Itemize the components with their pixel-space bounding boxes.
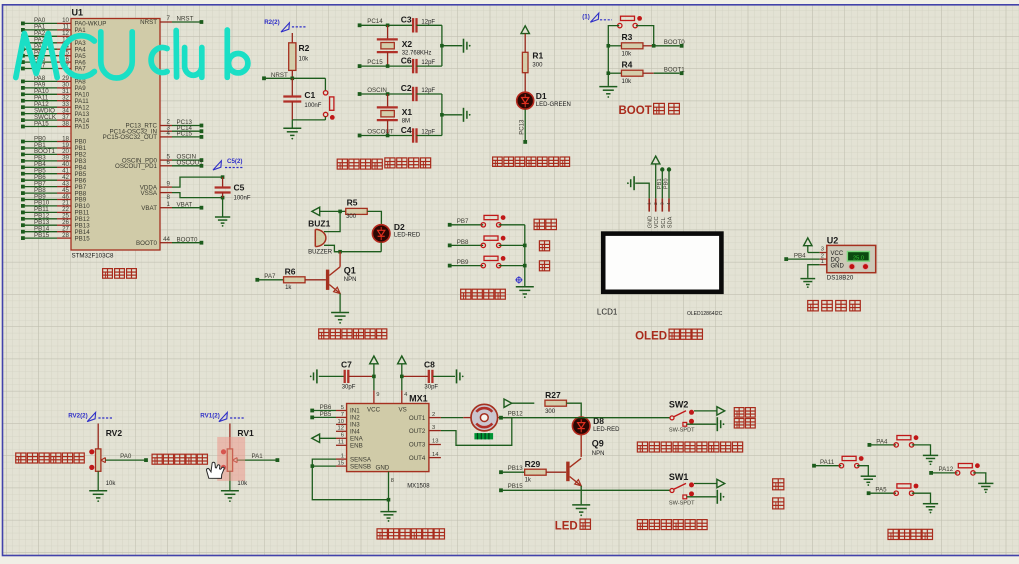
goto marker RV2(2) (68, 412, 112, 421)
push button PB9 (481, 256, 505, 268)
goto marker C5(2) (213, 158, 243, 170)
capacitor C5 (215, 177, 251, 201)
wire SW2 NO to power (694, 410, 717, 412)
svg-text:300: 300 (545, 409, 556, 415)
terminal PC13 bottom (523, 140, 527, 144)
wire SW2 NC to ground (687, 423, 717, 425)
capacitor C7 (319, 359, 374, 390)
label reset-circuit caption (337, 159, 382, 169)
goto marker RV1(2) (200, 412, 244, 421)
label temp-module caption (808, 301, 861, 311)
pin PA4 (14) of U1 (21, 43, 86, 53)
svg-text:PB12: PB12 (508, 410, 524, 417)
junction R3/R4 left (607, 44, 611, 48)
IC U1 STM32F103C8 body (71, 19, 160, 251)
power arrow buzzer (312, 207, 320, 215)
svg-text:SENSA: SENSA (350, 456, 372, 463)
net label PB1 vertical (657, 178, 663, 189)
svg-text:(1): (1) (582, 14, 590, 21)
svg-text:C3: C3 (401, 15, 412, 25)
terminal PB12 (499, 410, 523, 419)
svg-text:GND: GND (648, 216, 654, 228)
svg-text:MX1508: MX1508 (407, 484, 430, 490)
pin SENSA (1) of MX1 (336, 454, 372, 464)
svg-text:BUZZER: BUZZER (308, 249, 333, 255)
svg-text:IN4: IN4 (350, 429, 360, 436)
wire OSCIN to C2 (360, 93, 413, 95)
wire power to R1 (524, 34, 526, 53)
wire to reset ground (291, 120, 293, 128)
svg-text:12pF: 12pF (421, 88, 435, 94)
push button PB8 (481, 236, 505, 248)
pin IN4 (12) of MX1 (336, 426, 360, 436)
wire NRST net (264, 77, 325, 79)
transistor Q1 NPN (326, 252, 357, 294)
wire RV2 to ground (97, 471, 99, 490)
goto marker (1) (582, 13, 612, 22)
ground Q1 (331, 313, 349, 324)
wire OUT2 to motor (441, 418, 512, 446)
svg-text:VCC: VCC (367, 407, 381, 414)
boot push button (618, 16, 642, 28)
ground PA11 (861, 476, 876, 486)
svg-text:SENSB: SENSB (350, 463, 371, 470)
resistor R6 (284, 266, 306, 291)
svg-text:300: 300 (346, 214, 357, 220)
svg-text:30pF: 30pF (424, 384, 438, 390)
pin PB0 (18) of U1 (21, 135, 87, 145)
svg-text:100nF: 100nF (234, 196, 251, 202)
terminal PB7 and wire (448, 218, 483, 227)
ground MX1 (380, 512, 396, 522)
pin PA2 (12) of U1 (21, 30, 86, 40)
wire OSCOUT to C4 (360, 135, 413, 137)
wire button PA4 to ground (912, 445, 931, 455)
ground X2 (sideways) (464, 39, 471, 53)
ground PA5 (923, 504, 938, 514)
label crystal-circuit caption (385, 158, 431, 168)
svg-text:14: 14 (432, 452, 439, 458)
svg-text:R2(2): R2(2) (264, 19, 279, 26)
terminal PA7 (255, 273, 276, 282)
power arrow SW2 (717, 407, 725, 415)
svg-text:R5: R5 (347, 197, 358, 207)
wire PB5 to IN2 (312, 416, 336, 418)
ground C8 (sideways) (457, 369, 464, 383)
pin SWCLK (37) of U1 (21, 114, 90, 124)
transistor Q9 NPN (566, 439, 604, 486)
wire crystal X1 right bus (441, 94, 443, 136)
pin BOOT0 (44) of U1 with terminal BOOT0 (136, 236, 203, 247)
svg-text:R4: R4 (622, 59, 633, 69)
buzzer BUZ1 (308, 218, 333, 255)
terminal OSCOUT (358, 128, 394, 137)
svg-text:PB15: PB15 (75, 235, 91, 242)
svg-text:PB15: PB15 (508, 483, 524, 490)
pin PC13_RTC (2) of U1 with terminal PC13 (125, 119, 203, 130)
svg-text:U1: U1 (72, 8, 84, 18)
wire Q9 emitter to ground (580, 486, 582, 504)
svg-text:PC15: PC15 (367, 59, 383, 66)
pin PA9 (30) of U1 (21, 82, 86, 92)
svg-text:10k: 10k (622, 51, 633, 57)
svg-text:3: 3 (432, 425, 435, 431)
ground X1 (sideways) (464, 108, 471, 122)
svg-text:RV1: RV1 (237, 428, 254, 438)
capacitor C3 (401, 15, 442, 33)
svg-text:C8: C8 (424, 359, 435, 369)
ground C7 (sideways) (310, 369, 317, 383)
wire bottom bus (334, 251, 381, 253)
pin PB1 (19) of U1 (21, 142, 87, 152)
junction OSCOUT/X1 (386, 134, 390, 138)
svg-text:9: 9 (167, 180, 171, 187)
svg-text:GND: GND (376, 464, 390, 471)
label minus caption (539, 261, 549, 271)
terminal PB13 (499, 465, 523, 474)
ground RV2 (89, 491, 107, 502)
ground under C5 (215, 217, 230, 227)
pin IN1 (5) of MX1 (336, 405, 360, 415)
terminal PB6 (310, 404, 332, 413)
svg-text:OUT1: OUT1 (409, 415, 426, 422)
svg-text:OSCOUT: OSCOUT (367, 128, 394, 135)
pin PB14 (27) of U1 (21, 226, 90, 236)
wire D1 to PC13 terminal (524, 109, 526, 140)
wire VCC U2 (808, 252, 820, 254)
wire button left (608, 26, 619, 46)
svg-text:6: 6 (341, 433, 344, 439)
svg-text:BOOT0: BOOT0 (136, 240, 158, 247)
pin VDDA (9) of U1 (140, 180, 172, 191)
wire PA7 to R6 (257, 279, 283, 281)
svg-text:VBAT: VBAT (141, 205, 157, 212)
svg-text:LCD1: LCD1 (597, 308, 618, 317)
label alarm-circuit caption (319, 329, 387, 339)
ground BOOT circuit (599, 87, 617, 98)
push button PB7 (481, 215, 505, 227)
junction PC14/X2 (386, 24, 390, 28)
label LED-lamp caption (555, 519, 591, 532)
junction SENSA/SENSB (311, 464, 315, 468)
wire SDA PB0 (667, 167, 671, 198)
terminal PB15 (499, 483, 523, 492)
wire RV1 wiper to PA1 (237, 453, 277, 460)
svg-text:SW-SPDT: SW-SPDT (669, 500, 695, 506)
resistor R2 (289, 43, 310, 71)
pin PA7 (17) of U1 (21, 62, 86, 72)
terminal PA0 (144, 458, 148, 462)
svg-text:10k: 10k (299, 57, 310, 63)
label main-chip caption (103, 269, 137, 279)
svg-text:12pF: 12pF (421, 130, 435, 136)
svg-text:PA1: PA1 (252, 453, 264, 460)
svg-text:PB7: PB7 (457, 218, 469, 225)
svg-text:2: 2 (653, 202, 659, 205)
label plus caption (539, 241, 549, 251)
svg-text:OLED12864I2C: OLED12864I2C (687, 311, 723, 317)
svg-text:SW1: SW1 (669, 472, 689, 482)
crystal X1 (377, 94, 413, 136)
capacitor C2 (401, 83, 442, 101)
svg-text:SW2: SW2 (669, 399, 689, 409)
terminal PA12 (929, 466, 954, 475)
svg-text:PB0: PB0 (664, 178, 670, 189)
svg-text:RV1(2): RV1(2) (200, 413, 220, 420)
diode D8 LED-RED (572, 416, 620, 435)
terminal PB5 (310, 411, 332, 420)
svg-text:C5(2): C5(2) (227, 158, 242, 165)
svg-text:R27: R27 (545, 390, 561, 400)
label dark caption (773, 479, 784, 490)
wire PA12 to button (931, 472, 957, 474)
switch SW1 SW-SPDT (669, 472, 695, 506)
svg-text:8M: 8M (402, 119, 410, 125)
wire button PB8 right (499, 244, 525, 246)
wire PB12 to switch (501, 417, 670, 419)
power arrow VS MX1 (398, 356, 406, 390)
svg-text:PB15: PB15 (34, 232, 50, 239)
label gas-adjust caption (16, 453, 85, 463)
ground Q9 (572, 505, 590, 516)
wire R4 to BOOT1 (654, 67, 686, 74)
pin PC14-OSC32_IN (3) of U1 with terminal PC14 (110, 124, 204, 135)
svg-text:LED-RED: LED-RED (593, 427, 620, 433)
svg-text:OUT3: OUT3 (409, 442, 426, 449)
svg-text:15: 15 (338, 461, 344, 467)
wire button bus down (524, 225, 526, 286)
wire GND down (388, 500, 390, 511)
ground reset circuit (283, 128, 301, 139)
svg-text:R29: R29 (525, 459, 541, 469)
svg-text:BUZ1: BUZ1 (308, 218, 330, 228)
svg-text:13: 13 (432, 439, 438, 445)
svg-text:Q1: Q1 (344, 266, 356, 276)
svg-text:R3: R3 (622, 32, 633, 42)
svg-text:25.0: 25.0 (853, 255, 864, 261)
pin PA10 (31) of U1 (21, 88, 90, 98)
potentiometer RV1 (221, 428, 254, 487)
wire ENA (320, 437, 336, 439)
selection highlight RV1 (217, 437, 245, 481)
wire marker to RV2 (97, 424, 99, 449)
svg-text:VCC: VCC (654, 216, 660, 228)
svg-text:300: 300 (532, 62, 543, 68)
ground PA4 (923, 455, 938, 465)
wire button to C1 bottom (292, 119, 325, 121)
svg-text:7: 7 (167, 15, 171, 22)
label dc-motor caption (377, 529, 444, 539)
pin SWDIO (34) of U1 (21, 107, 90, 117)
switch SW2 SW-SPDT (669, 399, 695, 433)
push button PA4 (894, 435, 918, 447)
wire R6 to Q1 base (305, 279, 326, 281)
svg-text:NRST: NRST (177, 16, 194, 23)
pin PB7 (43) of U1 (21, 180, 87, 190)
pin VBAT (1) of U1 with terminal VBAT (141, 201, 203, 212)
svg-text:PC14: PC14 (367, 18, 383, 25)
wire R27 to D8 (566, 403, 581, 417)
pin PB12 (25) of U1 (21, 213, 90, 223)
capacitor C6 (401, 55, 442, 73)
svg-text:1: 1 (341, 454, 344, 460)
terminal NRST (262, 72, 288, 80)
junction C8/VS (400, 375, 404, 379)
svg-text:C2: C2 (401, 83, 412, 93)
pin PB5 (41) of U1 (21, 168, 87, 178)
svg-text:C4: C4 (401, 125, 412, 135)
svg-text:3: 3 (821, 247, 824, 253)
power arrow OLED VCC (652, 156, 660, 164)
resistor R5 (346, 197, 368, 220)
svg-text:12pF: 12pF (421, 60, 435, 66)
svg-text:11: 11 (338, 440, 344, 446)
svg-text:100nF: 100nF (304, 103, 321, 109)
svg-text:PC15: PC15 (177, 131, 193, 138)
svg-text:D2: D2 (394, 222, 405, 232)
junction X1 bus (440, 113, 444, 117)
pin PB10 (21) of U1 (21, 200, 90, 210)
svg-text:LED-RED: LED-RED (394, 233, 421, 239)
junction R2/NRST (291, 77, 295, 81)
pin PA0 (10) of U1 (21, 17, 106, 27)
push button PA5 (894, 484, 918, 496)
label smoke-adjust caption (152, 454, 207, 464)
wire R3 to BOOT0 (654, 39, 686, 46)
svg-text:28: 28 (62, 232, 69, 239)
svg-text:R1: R1 (532, 51, 543, 61)
junction at C5 bottom (221, 196, 225, 200)
label run-indicator caption (493, 157, 570, 166)
svg-text:10k: 10k (106, 481, 117, 487)
wire OUT1 to motor (441, 417, 471, 419)
junction button bus PB9 (523, 264, 527, 268)
pin PA8 (29) of U1 (21, 75, 86, 85)
svg-text:38: 38 (62, 120, 69, 127)
svg-text:PA7: PA7 (75, 66, 87, 73)
svg-text:OSCOUT: OSCOUT (177, 159, 204, 166)
wire SENSB (312, 465, 336, 467)
wire PB4 to DQ (786, 258, 820, 260)
svg-text:7: 7 (341, 412, 344, 418)
potentiometer RV2 (89, 428, 122, 487)
wire SW1 NC to ground (687, 496, 717, 498)
svg-text:BOOT0: BOOT0 (177, 236, 199, 243)
svg-text:U2: U2 (827, 235, 839, 245)
svg-text:OSCOUT_PD1: OSCOUT_PD1 (115, 163, 158, 170)
svg-text:4: 4 (666, 202, 672, 205)
wire power to R5 (320, 210, 346, 212)
svg-text:VS: VS (399, 407, 407, 414)
label independent-keys caption (461, 289, 506, 299)
pin PA3 (13) of U1 (21, 37, 86, 47)
svg-text:ENA: ENA (350, 436, 364, 443)
pin OUT2 (3) of MX1 (409, 425, 441, 435)
svg-text:6: 6 (167, 159, 171, 166)
wire power to R27 (512, 402, 535, 404)
svg-text:12pF: 12pF (421, 19, 435, 25)
wire button right (636, 26, 654, 46)
svg-text:PA0: PA0 (120, 453, 132, 460)
ground PA12 (978, 483, 993, 493)
svg-text:D1: D1 (536, 91, 547, 101)
wire GND OLED (635, 183, 649, 198)
ground SW2 (sideways) (717, 417, 724, 431)
svg-text:C6: C6 (401, 55, 412, 65)
svg-text:SW-SPDT: SW-SPDT (669, 428, 695, 434)
svg-text:VSSA: VSSA (140, 190, 157, 197)
junction OSCIN/X1 (386, 92, 390, 96)
pin PA12 (33) of U1 (21, 101, 90, 111)
pin OUT3 (13) of MX1 (409, 439, 441, 449)
wire sense bus to gnd bus (312, 466, 388, 500)
wire X2 bus to ground (442, 45, 462, 47)
svg-text:1k: 1k (285, 285, 292, 291)
label BOOT-circuit caption (619, 103, 680, 117)
ground buttons (516, 287, 534, 298)
pin GND (8) of MX1 (389, 472, 395, 500)
net label PC13 vertical (519, 119, 525, 135)
svg-text:PA12: PA12 (939, 466, 954, 473)
ground U2 (800, 279, 815, 288)
pin PA5 (15) of U1 (21, 50, 86, 60)
svg-text:12: 12 (338, 426, 344, 432)
wire R1 to D1 (524, 73, 526, 92)
svg-text:NPN: NPN (344, 277, 357, 283)
svg-text:9: 9 (376, 392, 379, 398)
ground OLED (sideways) (627, 176, 634, 190)
terminal PC15 (358, 59, 384, 68)
junction C7/VCC (372, 375, 376, 379)
terminal PA1 (276, 458, 280, 462)
pin OSCIN_PD0 (5) of U1 with terminal OSCIN (122, 153, 203, 164)
wire RV1 to ground (229, 471, 231, 490)
wire PB6 to IN1 (312, 410, 336, 412)
label STM32F103C8 (72, 253, 115, 260)
wire R29 to Q9 base (546, 471, 566, 473)
origin marker crosshair (515, 276, 522, 283)
pin PA1 (11) of U1 (21, 24, 86, 34)
pin ENA (6) of MX1 (336, 433, 364, 443)
wire PC14 to C3 (360, 24, 413, 26)
svg-text:1: 1 (821, 259, 824, 265)
wire SW1 NO to power (694, 483, 717, 485)
wire left bus down (607, 46, 609, 86)
svg-text:X2: X2 (402, 39, 413, 49)
terminal PC14 (358, 18, 384, 27)
wire button PA12 to ground (973, 473, 986, 483)
net label PB0 vertical (664, 178, 670, 189)
wire power to R2 (291, 33, 293, 43)
pin IN2 (7) of MX1 (336, 412, 360, 422)
svg-text:ENB: ENB (350, 443, 363, 450)
wire X1 bus to ground (442, 114, 462, 116)
capacitor C1 (283, 78, 321, 120)
pin VCC MX1 stub (374, 390, 380, 403)
svg-text:IN2: IN2 (350, 415, 360, 422)
resistor R4 (608, 59, 653, 84)
svg-text:PB13: PB13 (508, 465, 524, 472)
label nobody caption (734, 408, 755, 418)
wire marker to RV1 (229, 424, 231, 449)
pin PB15 (28) of U1 (21, 232, 90, 242)
svg-text:MX1: MX1 (409, 393, 428, 403)
label gesture-module caption (888, 529, 933, 539)
svg-text:SDA: SDA (668, 216, 674, 228)
svg-text:BOOT: BOOT (619, 105, 652, 117)
svg-text:RV2: RV2 (106, 428, 123, 438)
label pir-module caption (637, 442, 742, 452)
